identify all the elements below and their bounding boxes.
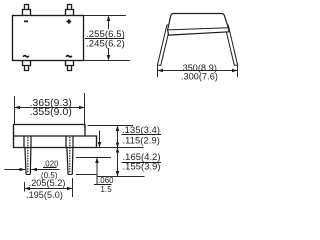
down arrow at x=99 [99, 131, 101, 148]
dim .205/.195 extension lines [24, 182, 26, 192]
side view: mold line [168, 28, 229, 30]
dim .255/.245 arrows [107, 16, 111, 22]
dim .255/.245 extension lines [84, 16, 130, 61]
svg-text:.155(3.9): .155(3.9) [123, 162, 161, 172]
front view: left pin [24, 136, 31, 175]
svg-text:.355(9.0): .355(9.0) [30, 107, 73, 118]
reference line1 (body top ext) [88, 125, 134, 127]
svg-text:.135(3.4): .135(3.4) [122, 125, 160, 135]
up arrow at x=97 [96, 158, 98, 186]
svg-text:.195(5.0): .195(5.0) [26, 190, 63, 200]
svg-text:.060: .060 [98, 176, 114, 185]
top view: top-left pin [23, 5, 31, 16]
front view: body [14, 125, 97, 148]
top view: minus mark [24, 21, 28, 23]
top view: body [13, 16, 84, 61]
top view: bottom-right pin [66, 61, 74, 71]
svg-text:.205(5.2): .205(5.2) [29, 178, 66, 188]
side view: right leg [225, 25, 238, 65]
top view: tilde right [66, 56, 72, 57]
svg-text:.300(7.6): .300(7.6) [181, 71, 218, 81]
dim .020 leader left [5, 169, 26, 171]
top view: tilde left [23, 56, 29, 57]
svg-text:.245(6.2): .245(6.2) [86, 38, 125, 49]
side view: left leg [157, 25, 170, 65]
reference line5 [97, 176, 144, 178]
dim .350/.300 extension lines [158, 66, 238, 77]
side view: body [168, 14, 229, 36]
dim .020 leader right [31, 169, 59, 171]
top view: bottom-left pin [23, 61, 31, 71]
reference line3 [76, 157, 111, 159]
dim .365/.355 extension lines [15, 93, 85, 127]
dim .365/.355 arrows [15, 106, 21, 110]
top view: top-right pin [66, 5, 74, 16]
svg-text:.115(2.9): .115(2.9) [123, 135, 160, 145]
top view: plus mark [67, 19, 72, 24]
dim .350/.300 arrows [158, 69, 164, 73]
reference line4 [76, 174, 97, 176]
dim line at x=117 (.135 / .165) [117, 126, 119, 177]
front view: right pin [66, 136, 73, 175]
reference line2 (standoff ext) [97, 147, 144, 149]
svg-text:1.5: 1.5 [101, 185, 113, 194]
